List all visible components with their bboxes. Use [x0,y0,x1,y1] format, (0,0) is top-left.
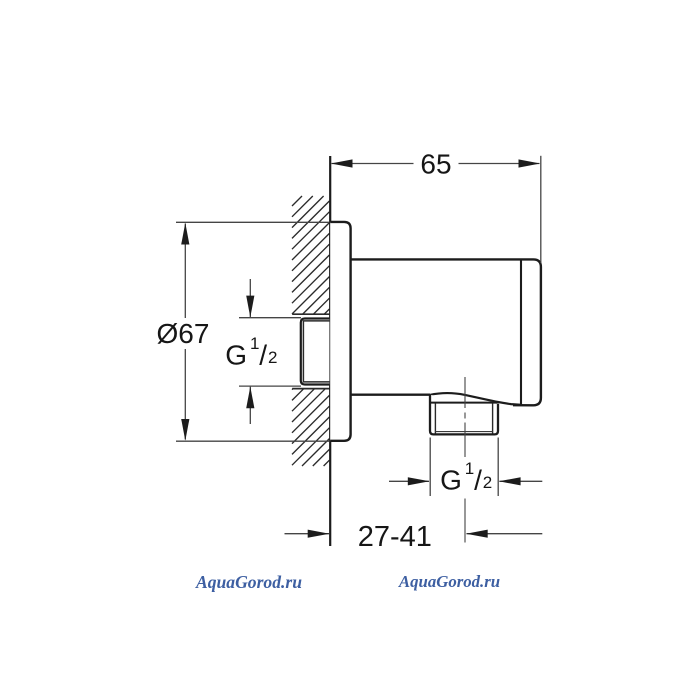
dim 65 arrow right [519,159,541,167]
dim O67 arrow top [181,223,189,245]
dim G12 bottom arrow left [408,477,430,485]
dim G12 left extension bottom [239,385,301,387]
dim 65 line [332,163,414,165]
dim O67 line [184,224,186,319]
dim G12 bottom text [440,459,492,496]
inlet connector through wall [301,319,330,385]
outlet centerline [464,377,466,543]
svg-text:1: 1 [250,334,259,353]
outlet top shoulder line [431,402,498,404]
dim 27-41 arrow left [308,530,330,538]
dim G12 left arrow line bottom [249,387,251,424]
body bottom left edge [351,394,430,396]
wall hole boundary top [292,313,329,315]
dim G12 left arrow line top [249,279,251,317]
svg-text:/: / [259,340,267,371]
body cylinder outline [351,259,541,405]
outlet thread root left [434,403,436,433]
svg-text:G: G [225,339,247,370]
dim G12 bottom extension right [497,438,499,497]
svg-text:AquaGorod.ru: AquaGorod.ru [195,572,302,592]
svg-text:2: 2 [268,348,277,367]
dim G12 left text [225,334,277,371]
svg-text:AquaGorod.ru: AquaGorod.ru [398,572,500,591]
dim G12 left arrow top [246,296,254,318]
dim G12 bottom arrow right [499,477,521,485]
dim G12 bottom extension left [429,438,431,497]
wire wall face line [329,156,331,546]
inlet thread root line [303,321,329,382]
svg-text:65: 65 [420,148,451,179]
dim O67 arrow bottom [181,419,189,441]
dim O67 extension top [176,221,329,223]
dim 27-41 line right [467,533,543,535]
dim 65 arrow left [331,159,353,167]
dim G12 left extension top [239,317,301,319]
svg-text:G: G [440,464,462,495]
outlet thread root right [492,403,494,433]
outlet nipple G1/2 [430,395,498,435]
dim 27-41 line left [285,533,330,535]
dim 27-41 arrow right [466,530,488,538]
svg-text:1: 1 [465,459,474,478]
dim 65 extension right [540,156,542,263]
svg-text:2: 2 [483,473,492,492]
wall hatch section [292,196,329,466]
dim O67 extension bottom [176,440,329,442]
dim G12 bottom line left [389,480,429,482]
dim G12 left arrow bottom [246,387,254,409]
wall hole boundary bottom [292,388,329,390]
flange escutcheon plate [330,222,350,441]
svg-text:/: / [474,465,482,496]
svg-text:27-41: 27-41 [358,521,432,553]
outlet boss intersection curve [430,393,522,405]
svg-text:Ø67: Ø67 [157,318,210,349]
dim G12 bottom line right [499,480,542,482]
cap junction line [520,261,522,405]
outlet chamfer line [435,431,492,433]
